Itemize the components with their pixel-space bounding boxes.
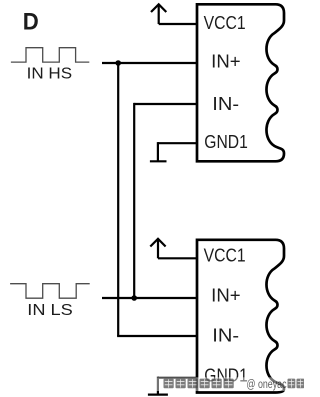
wire IN LS to bottom IN+ xyxy=(102,297,197,299)
input waveform IN LS xyxy=(10,284,90,299)
junction dot on IN HS wire xyxy=(115,60,121,66)
VCC1 supply arrow (bottom) xyxy=(150,239,197,258)
svg-text:IN HS: IN HS xyxy=(27,65,73,82)
svg-text:IN+: IN+ xyxy=(211,285,240,305)
wire bottom IN- horizontal xyxy=(117,335,197,337)
svg-text:VCC1: VCC1 xyxy=(204,13,246,33)
watermark band xyxy=(150,377,304,391)
svg-text:IN-: IN- xyxy=(212,94,239,114)
svg-text:VCC1: VCC1 xyxy=(204,246,246,266)
svg-text:IN LS: IN LS xyxy=(27,302,73,319)
gate driver U2 (bottom) body with continuation edge xyxy=(197,240,284,393)
ground symbol (top GND1) xyxy=(150,142,197,161)
watermark text (CJK glyph blobs + latin) xyxy=(164,379,305,389)
svg-text:GND1: GND1 xyxy=(204,132,248,152)
input waveform IN HS xyxy=(11,48,89,62)
svg-text:@ oneyac: @ oneyac xyxy=(247,379,287,391)
wire vertical from IN HS junction down to bottom IN- xyxy=(117,63,119,336)
VCC1 supply arrow (top) xyxy=(151,4,197,24)
junction dot on IN LS wire xyxy=(131,295,137,301)
wire vertical from top IN- down to IN LS wire xyxy=(133,103,135,298)
svg-text:IN+: IN+ xyxy=(211,51,240,71)
svg-text:IN-: IN- xyxy=(212,325,239,345)
wire IN HS to top IN+ xyxy=(102,62,197,64)
gate driver U1 (top) body with continuation edge xyxy=(197,4,284,161)
wire top IN- horizontal xyxy=(134,103,197,105)
svg-text:D: D xyxy=(23,9,39,36)
ground symbol (bottom GND1) xyxy=(148,377,197,395)
